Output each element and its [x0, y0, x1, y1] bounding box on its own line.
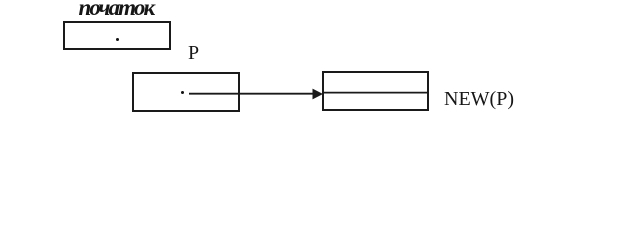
pointer box початок [63, 21, 171, 50]
node box NEW(P) [322, 71, 429, 111]
label P [188, 42, 199, 65]
wire arrow shaft [189, 93, 314, 95]
dot inside початок box [116, 38, 119, 41]
divider line of NEW(P) node [323, 92, 429, 94]
label початок [79, 0, 154, 21]
dot inside P box [181, 91, 184, 94]
arrowhead [313, 89, 324, 100]
arrow from P box to NEW(P) node [0, 0, 634, 176]
pointer box P [132, 72, 240, 112]
label NEW(P) [444, 88, 514, 111]
